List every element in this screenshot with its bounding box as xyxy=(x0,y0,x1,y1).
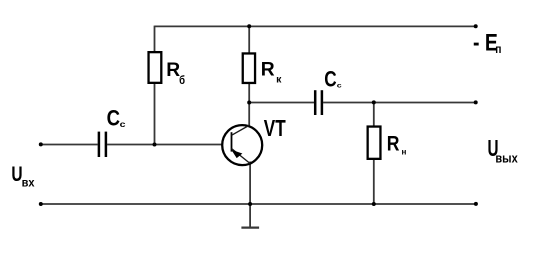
node: Rn top junction xyxy=(372,100,376,104)
svg-text:с: с xyxy=(337,83,342,90)
label C1 xyxy=(107,106,126,131)
node: supply terminal xyxy=(474,24,478,28)
wire: collector node to output capacitor xyxy=(249,102,314,104)
ground xyxy=(241,204,259,228)
svg-text:C: C xyxy=(107,106,121,131)
wire: Rk upper vertical drop xyxy=(248,26,250,54)
svg-text:C: C xyxy=(324,66,336,91)
wire: output capacitor to output terminal xyxy=(323,102,476,104)
wire: bottom common rail xyxy=(41,203,476,205)
node: top Rk junction xyxy=(247,24,251,28)
node: output terminal top xyxy=(474,100,478,104)
node: base junction xyxy=(153,143,157,147)
transistor VT (PNP) xyxy=(222,125,262,165)
svg-text:к: к xyxy=(276,75,282,86)
wire: Rn lower vertical segment xyxy=(373,159,375,204)
svg-text:R: R xyxy=(387,133,400,156)
svg-text:п: п xyxy=(495,42,501,56)
resistor RK (collector resistor) xyxy=(243,53,255,82)
wire: input terminal to input capacitor xyxy=(41,144,98,146)
label RH xyxy=(387,133,407,157)
node: bottom-left terminal xyxy=(39,202,43,206)
wire: Rn upper vertical segment xyxy=(373,103,375,127)
resistor RH (load resistor) xyxy=(368,127,381,159)
svg-text:с: с xyxy=(120,120,126,129)
wire: Rb lower vertical drop to base node xyxy=(154,83,156,144)
node: output terminal bottom xyxy=(474,202,478,206)
svg-text:- E: - E xyxy=(473,30,498,56)
label C2 xyxy=(324,66,342,91)
svg-text:н: н xyxy=(402,147,407,157)
svg-text:вых: вых xyxy=(495,152,517,166)
svg-text:б: б xyxy=(179,73,185,87)
wire: emitter to bottom rail xyxy=(249,162,251,205)
capacitor C1 (input coupling) xyxy=(99,132,106,157)
label Uvyx (output voltage) xyxy=(488,135,518,166)
wire: top supply rail xyxy=(155,25,476,27)
capacitor C2 (output coupling) xyxy=(315,90,322,115)
label RK xyxy=(261,59,283,86)
label -En (supply) xyxy=(473,30,501,56)
svg-text:вх: вх xyxy=(22,177,35,190)
node: collector junction xyxy=(247,101,251,105)
label R6 xyxy=(166,59,185,87)
resistor R6 (base resistor) xyxy=(149,52,162,83)
node: Rn bottom junction xyxy=(372,202,376,206)
node: input terminal xyxy=(39,142,43,146)
label Uvx (input voltage) xyxy=(11,161,35,190)
node: emitter junction xyxy=(248,202,252,206)
svg-text:R: R xyxy=(261,59,275,81)
svg-text:VT: VT xyxy=(264,115,286,141)
wire: input capacitor to base xyxy=(107,144,222,146)
wire: Rb upper vertical drop xyxy=(154,26,156,53)
wire: Rk lower vertical drop to collector xyxy=(248,84,250,127)
